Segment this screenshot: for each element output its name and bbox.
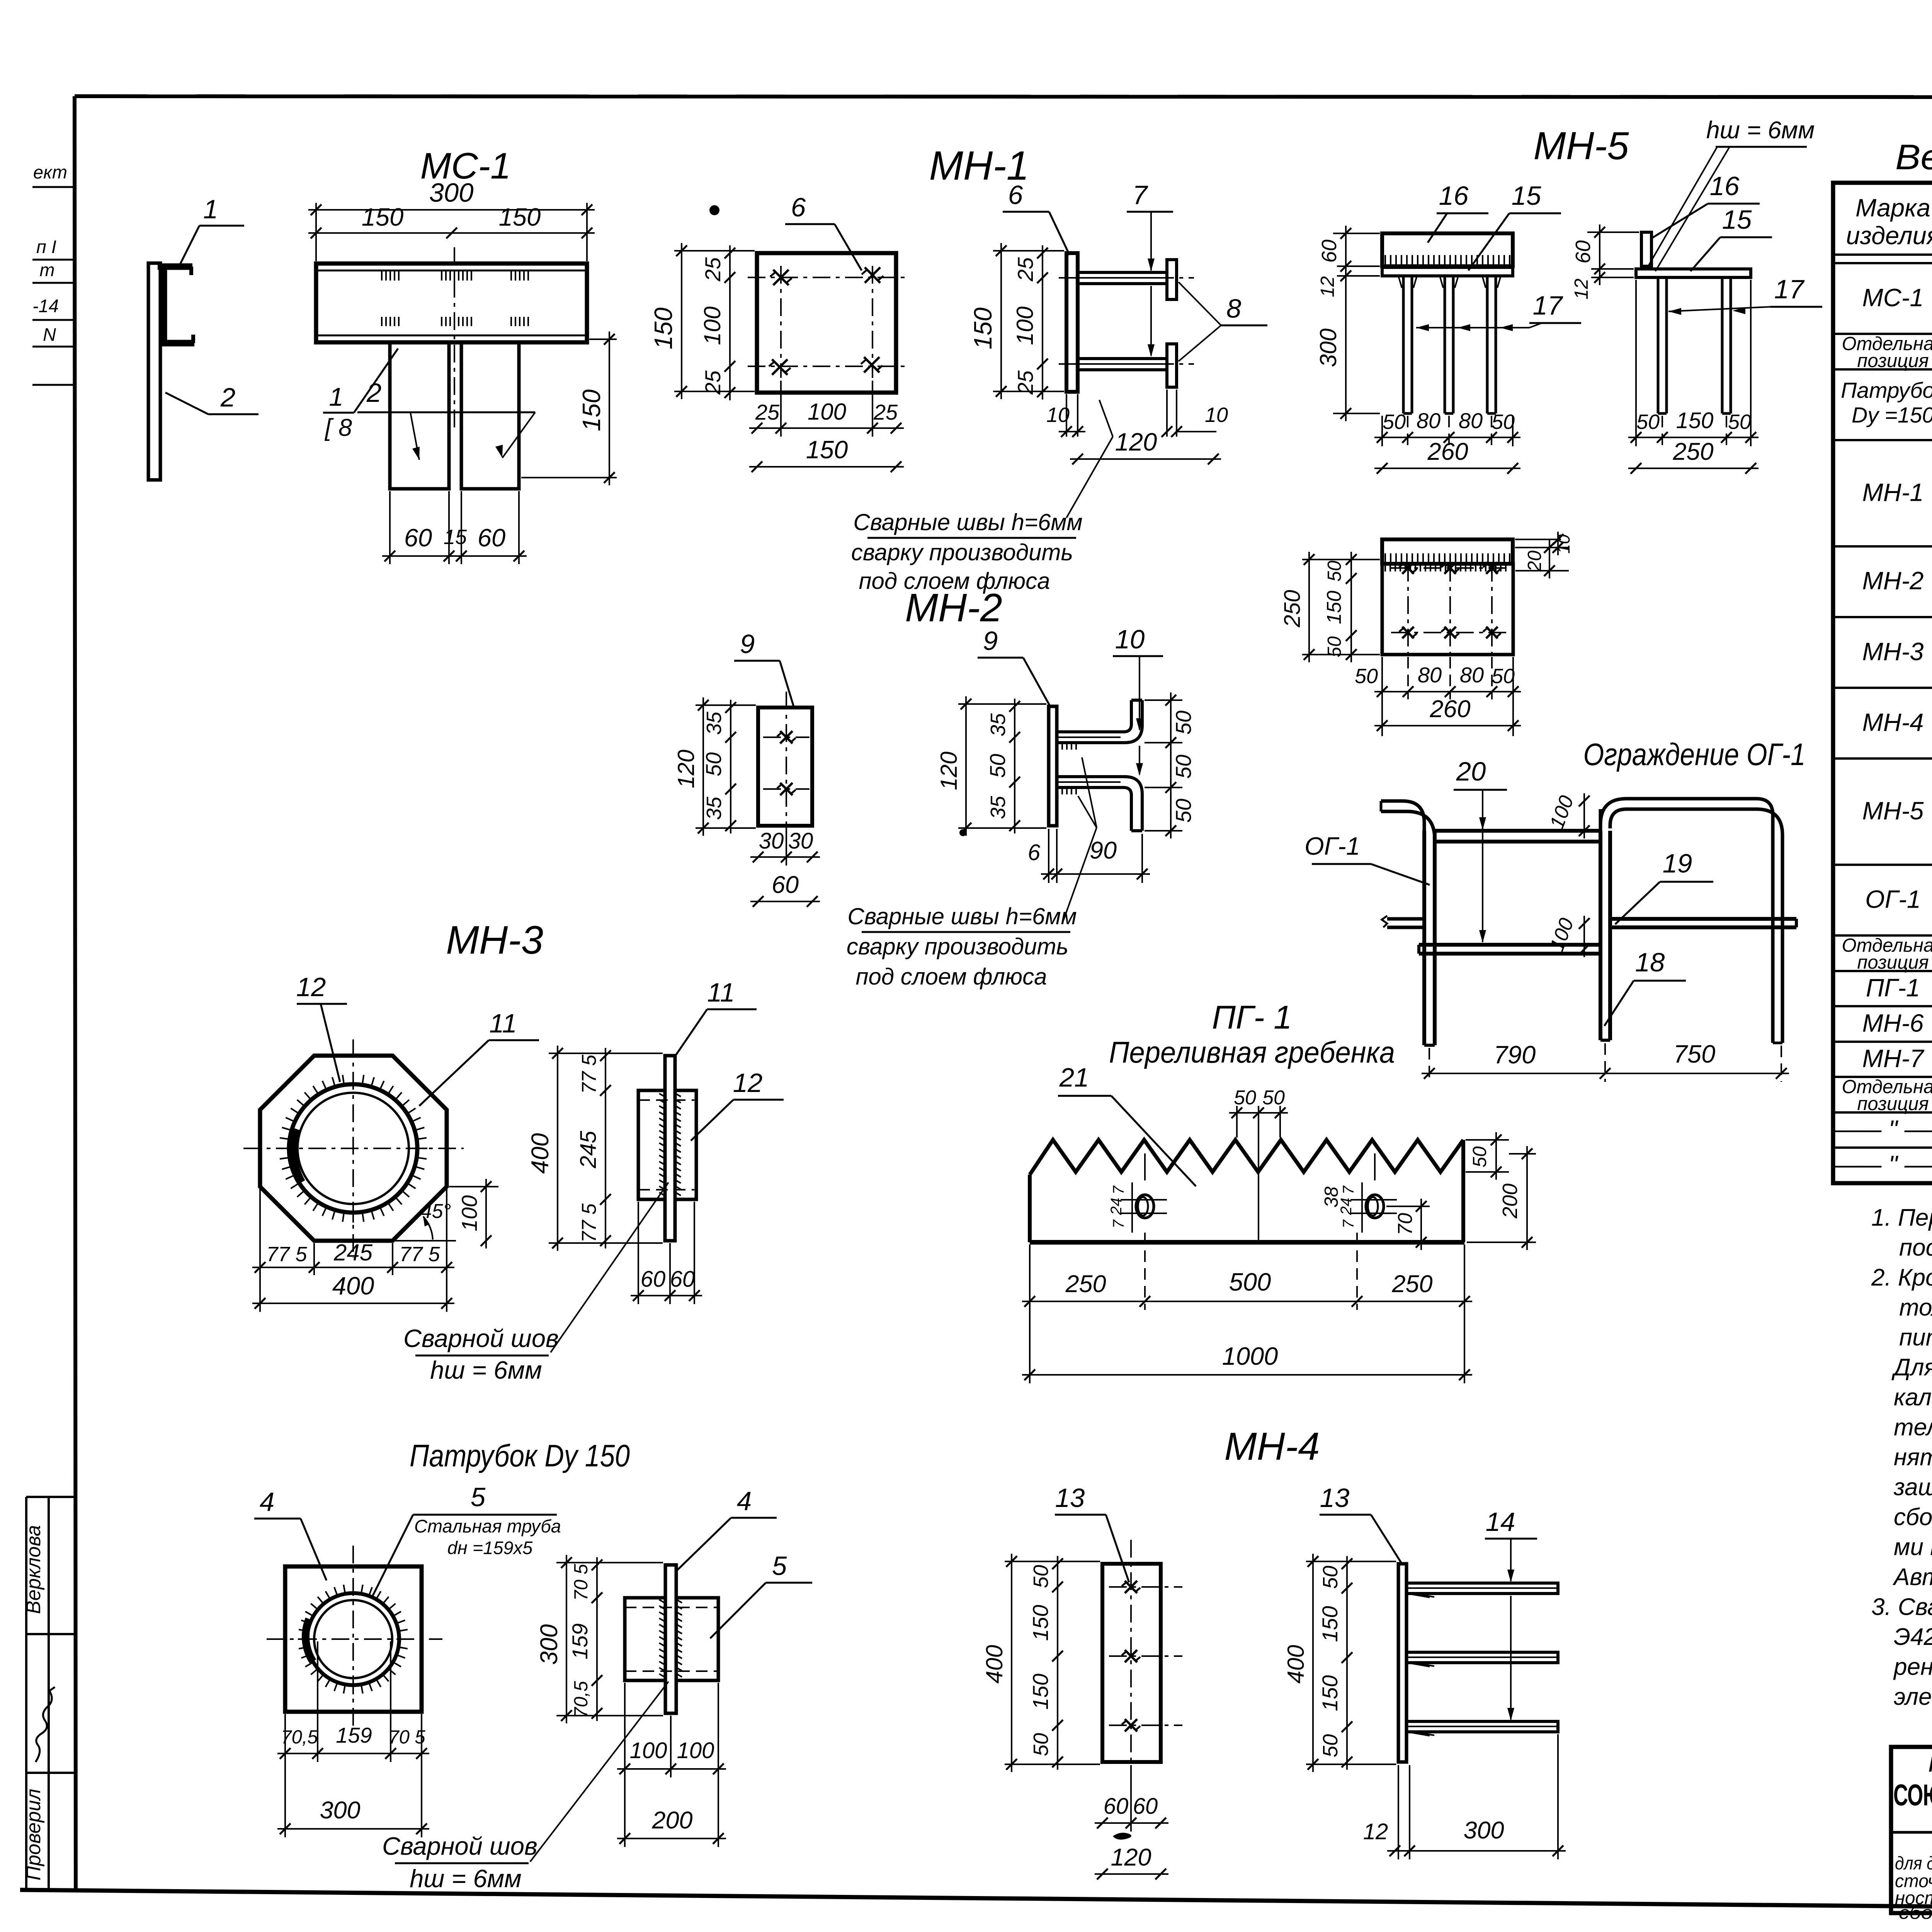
MH-2 side bottom dims 6 90 [1048, 829, 1049, 883]
svg-text:кальциевым покрытием типа: кальциевым покрытием типа Э-42А или Э50А… [1894, 1384, 1932, 1411]
svg-text:17: 17 [1533, 291, 1563, 320]
svg-text:70: 70 [1394, 1213, 1417, 1235]
MH-4 side dim 400 [1306, 1561, 1396, 1562]
svg-text:ПГ- 1: ПГ- 1 [1212, 999, 1292, 1036]
svg-text:50: 50 [1492, 665, 1515, 688]
MC-1 centerline [454, 247, 455, 433]
svg-text:260: 260 [1429, 696, 1470, 723]
svg-text:13: 13 [1320, 1483, 1350, 1513]
PG-1 dim 200 right [1467, 1242, 1536, 1243]
MH-5 side view studs pos17 [1657, 277, 1660, 413]
svg-text:260: 260 [1427, 438, 1468, 465]
svg-text:Dy =150: Dy =150 [1852, 403, 1932, 427]
svg-text:17: 17 [1774, 274, 1805, 304]
MH-3 side weld hatch [656, 1090, 658, 1092]
svg-text:50: 50 [1324, 636, 1345, 658]
svg-text:Проверил: Проверил [22, 1789, 45, 1881]
MH-5 front dims 60 12 left [1333, 233, 1380, 234]
svg-text:70 5: 70 5 [571, 1564, 592, 1601]
MH-4 front dim 120 [1095, 1873, 1168, 1875]
svg-text:11: 11 [489, 1009, 517, 1038]
svg-text:19: 19 [1663, 849, 1692, 878]
svg-text:150: 150 [1318, 1675, 1342, 1711]
svg-text:Сварной шов: Сварной шов [382, 1832, 537, 1860]
MH-2 side dim 120 [958, 703, 1046, 705]
MH-5 weld label leaders [1648, 148, 1717, 266]
svg-text:245: 245 [333, 1240, 373, 1265]
MH-4 front bottom dims 60 60 [1130, 1765, 1132, 1832]
OG-1 right section U-frame pos18 [1600, 799, 1773, 1043]
svg-text:60: 60 [772, 871, 799, 898]
MH-1 plan dims 25 100 25 left [729, 245, 731, 400]
MH-3 side view tube pos12 [638, 1090, 665, 1199]
svg-text:Верклова: Верклова [22, 1525, 45, 1614]
svg-text:150: 150 [499, 203, 541, 231]
svg-text:150: 150 [1676, 408, 1714, 433]
svg-text:1: 1 [329, 383, 343, 412]
svg-text:80: 80 [1417, 408, 1440, 433]
MH-3 radial weld hatch [418, 1148, 427, 1149]
svg-text:Э42 ГОСТ 9467-60. Высота в: Э42 ГОСТ 9467-60. Высота всех сварных шв… [1894, 1624, 1932, 1650]
svg-text:50: 50 [1319, 1566, 1342, 1589]
OG-1 left post pos18 [1422, 831, 1426, 1045]
svg-text:Госстрой СССР: Госстрой СССР [1928, 1748, 1932, 1777]
svg-text:150: 150 [1318, 1606, 1342, 1642]
svg-text:150: 150 [362, 203, 403, 231]
svg-text:Стальная труба: Стальная труба [414, 1516, 561, 1536]
svg-text:20: 20 [1456, 757, 1486, 786]
patrubok front bottom dims 70,5 159 70,5 [284, 1714, 286, 1762]
svg-text:50: 50 [1171, 755, 1196, 779]
patrubok side dims 70,5 159 70,5 [596, 1557, 598, 1721]
svg-text:250: 250 [1280, 590, 1305, 628]
svg-text:12: 12 [296, 972, 326, 1002]
MH-3 dim 100 right [449, 1186, 498, 1187]
MH-4 side dims 50 150 150 50 [1346, 1556, 1348, 1770]
svg-text:[ 8: [ 8 [324, 414, 352, 441]
svg-text:элементов.: элементов. [1894, 1684, 1932, 1710]
svg-text:15: 15 [1512, 181, 1541, 211]
patrubok tube circle pos5 [307, 1593, 399, 1685]
svg-text:ект: ект [33, 162, 67, 182]
svg-text:100: 100 [808, 399, 846, 425]
MC-1 front view weld hatches [381, 271, 383, 281]
svg-text:Сварные швы h=6мм: Сварные швы h=6мм [853, 509, 1082, 535]
svg-text:Ведомость элементов на одно: Ведомость элементов на одно изделие [1895, 138, 1932, 177]
svg-text:12: 12 [1571, 279, 1592, 300]
MH-2 front bottom dims 30 30 [786, 829, 787, 866]
MH-3 bottom dims 77,5 245 77,5 [259, 1189, 261, 1275]
MH-5 plan right dims 10 20 [1515, 539, 1561, 540]
svg-text:750: 750 [1673, 1040, 1715, 1068]
svg-text:п I: п I [36, 236, 56, 257]
MH-2 side view plate pos9 [1049, 706, 1057, 826]
svg-text:2. Кронштейн МС-1 и все закл: 2. Кронштейн МС-1 и все закладные детали… [1871, 1264, 1932, 1291]
MH-3 side view plate pos11 [665, 1056, 675, 1241]
svg-text:6: 6 [791, 192, 806, 222]
svg-text:10: 10 [1205, 403, 1228, 427]
svg-text:изделия: изделия [1846, 221, 1932, 250]
svg-text:25: 25 [1013, 257, 1037, 282]
PG-1 dim 70 right of hole [1386, 1206, 1430, 1207]
ink blob [1113, 1833, 1131, 1840]
left margin stamp lines [32, 186, 75, 188]
svg-text:150: 150 [1028, 1605, 1053, 1641]
svg-text:35: 35 [702, 796, 726, 820]
svg-text:12: 12 [1317, 276, 1338, 298]
MH-5 side dim 250 [1628, 468, 1759, 469]
svg-text:24: 24 [1108, 1198, 1125, 1216]
svg-text:9: 9 [740, 629, 755, 659]
MH-5 plan view plate pos15 [1382, 564, 1513, 655]
MH-3 side bottom dims 60 60 [638, 1202, 639, 1304]
svg-text:4: 4 [260, 1487, 274, 1517]
svg-text:16: 16 [1439, 181, 1469, 211]
svg-text:77 5: 77 5 [266, 1243, 307, 1266]
MC-1 front view channel bar [316, 264, 587, 342]
MH-5 side view bar end pos16 [1641, 232, 1651, 266]
svg-text:dн =159x5: dн =159x5 [447, 1537, 533, 1558]
svg-text:Авторское свидетельство №: Авторское свидетельство № 234095). [1892, 1564, 1932, 1590]
MH-5 side bottom dims 50 150 50 [1662, 416, 1663, 446]
svg-text:МН-7: МН-7 [1862, 1044, 1925, 1072]
MC-1 dim 60 15 60 extensions [389, 491, 391, 564]
svg-text:25: 25 [755, 400, 780, 424]
OG-1 dim 100 lower [1583, 916, 1585, 957]
svg-text:60: 60 [1104, 1794, 1129, 1819]
svg-text:МН-2: МН-2 [1862, 566, 1924, 595]
svg-text:50: 50 [1355, 665, 1378, 688]
MC-1 side view plate pos2 [148, 263, 160, 480]
bottom-left stamp column [25, 1497, 27, 1888]
MH-5 plan centerlines and welds [1407, 564, 1409, 655]
svg-text:60: 60 [641, 1267, 666, 1292]
svg-text:нять в соответствии с „ Реко: нять в соответствии с „ Рекомендациями п… [1894, 1444, 1932, 1471]
svg-text:позиция: позиция [1857, 350, 1929, 371]
svg-text:100: 100 [1546, 793, 1578, 832]
svg-text:ми на основе алюминия”. (Вт: ми на основе алюминия”. (Второе издание … [1894, 1534, 1932, 1561]
MH-3 dim 400 [259, 1275, 261, 1312]
MH-3 centerlines [243, 1148, 464, 1149]
MH-4 front dims 50 150 150 50 [1057, 1556, 1058, 1770]
svg-text:МН-2: МН-2 [905, 585, 1002, 630]
MH-4 front centerline [1130, 1540, 1132, 1787]
svg-text:ОГ-1: ОГ-1 [1304, 832, 1360, 860]
svg-text:МС-1: МС-1 [1862, 284, 1924, 312]
patrubok centerlines [267, 1638, 442, 1640]
svg-text:11: 11 [707, 978, 735, 1007]
svg-text:1: 1 [203, 194, 218, 224]
MH-1 side dims 25 100 25 [1042, 245, 1043, 400]
svg-text:Для сварки закладных детале: Для сварки закладных деталей применять э… [1891, 1354, 1932, 1381]
OG-1 left top rail pos20 [1435, 829, 1600, 833]
OG-1 right mid rail pos19 [1610, 917, 1796, 921]
svg-text:15: 15 [444, 526, 467, 549]
MH-1 plan bottom dims 25 100 25 [780, 381, 782, 437]
MH-5 side dims 60 12 left [1587, 231, 1639, 233]
svg-text:50: 50 [1636, 410, 1660, 434]
MH-3 side dim 400 [549, 1053, 663, 1054]
svg-text:МН-3: МН-3 [1862, 637, 1924, 665]
MH-1 side bottom dim 10 right [1166, 389, 1168, 437]
svg-text:50: 50 [1319, 1734, 1342, 1757]
svg-text:100: 100 [677, 1738, 714, 1763]
MH-1 side view lower stud pos7 [1078, 359, 1167, 370]
MH-1 side dim 120 [1070, 458, 1221, 460]
svg-text:50: 50 [1492, 410, 1515, 434]
svg-text:Патрубок Dy 150: Патрубок Dy 150 [410, 1439, 630, 1473]
svg-text:N: N [43, 324, 56, 345]
svg-text:10: 10 [1046, 403, 1070, 427]
MH-3 tube circles pos12 [289, 1084, 417, 1213]
svg-text:120: 120 [1115, 428, 1157, 456]
svg-text:70,5: 70,5 [571, 1681, 592, 1718]
MH-1 plate plan view [757, 253, 896, 393]
svg-text:6: 6 [1008, 180, 1023, 210]
svg-text:т: т [39, 260, 54, 280]
MH-4 front weld marks [1109, 1586, 1182, 1588]
svg-text:80: 80 [1418, 663, 1442, 687]
MH-5 plan dim 260 [1374, 725, 1521, 726]
svg-text:77 5: 77 5 [399, 1243, 440, 1266]
MH-1 side view plate pos6 [1066, 253, 1078, 392]
svg-text:питкой органическим составо: питкой органическим составом эл-00-01 (Т… [1899, 1324, 1932, 1351]
svg-text:50: 50 [1324, 561, 1345, 582]
svg-text:7: 7 [1340, 1219, 1357, 1228]
MH-5 plan dim 250 left [1302, 559, 1380, 560]
svg-text:сварку производить: сварку производить [847, 934, 1068, 959]
svg-text:—— " ——: —— " —— [1831, 1115, 1932, 1143]
svg-text:13: 13 [1055, 1483, 1085, 1513]
svg-text:50: 50 [1469, 1146, 1490, 1168]
PG-1 bottom dims 250 500 250 [1029, 1245, 1031, 1383]
patrubok front dim 300 [284, 1762, 286, 1837]
MH-4 side bottom dims 12 300 [1398, 1765, 1399, 1859]
patrubok weld seam leader [530, 1682, 668, 1862]
svg-text:Сварной шов: Сварной шов [403, 1324, 559, 1352]
svg-text:790: 790 [1494, 1041, 1536, 1069]
svg-text:77 5: 77 5 [578, 1054, 600, 1094]
MC-1 dim 150 legs [589, 338, 617, 340]
MH-1 side view upper stud head pos8 [1167, 260, 1177, 299]
patrubok side view tube pos5 [625, 1598, 665, 1680]
MH-5 front view plate pos15 [1382, 267, 1513, 276]
svg-text:Ограждение ОГ-1: Ограждение ОГ-1 [1583, 737, 1806, 772]
svg-text:2: 2 [366, 378, 381, 408]
svg-text:сборного железобетона.: сборного железобетона. [1899, 1902, 1932, 1923]
svg-text:200: 200 [651, 1807, 692, 1834]
svg-text:СОЮЗВОДОКАНАЛПРОЕКТ: СОЮЗВОДОКАНАЛПРОЕКТ [1893, 1778, 1932, 1812]
svg-text:МН-5: МН-5 [1534, 124, 1629, 168]
MC-1 side view channel pos1 [158, 267, 194, 343]
svg-text:300: 300 [320, 1797, 360, 1824]
svg-text:—— " ——: —— " —— [1831, 1150, 1932, 1179]
svg-text:защите стальных закладных д: защите стальных закладных деталей и свар… [1893, 1474, 1932, 1501]
svg-text:16: 16 [1710, 171, 1740, 201]
svg-text:400: 400 [332, 1272, 374, 1300]
svg-text:ренных, выбирается по наимен: ренных, выбирается по наименьшей толщине… [1893, 1654, 1932, 1680]
svg-text:21: 21 [1059, 1063, 1089, 1092]
svg-text:7: 7 [1110, 1219, 1127, 1228]
svg-text:250: 250 [1391, 1270, 1432, 1298]
ink dot [959, 829, 966, 836]
MH-5 plan dims 50 150 50 [1350, 552, 1352, 662]
svg-text:20: 20 [1524, 551, 1545, 572]
svg-text:30: 30 [759, 828, 784, 854]
MH-2 weld note leader [1063, 828, 1097, 920]
svg-text:3. Сварку стальных конструкц: 3. Сварку стальных конструкций выполнять… [1871, 1594, 1932, 1621]
MH-2 side lower rod pos10 [1057, 787, 1131, 831]
svg-text:8: 8 [1226, 294, 1241, 323]
svg-text:159: 159 [336, 1723, 372, 1747]
PG-1 dim 50 tooth right [1466, 1139, 1509, 1141]
MH-2 side weld ticks [1057, 743, 1058, 750]
svg-text:400: 400 [981, 1645, 1007, 1684]
svg-text:100: 100 [1546, 915, 1578, 954]
svg-text:150: 150 [1028, 1673, 1053, 1709]
svg-text:150: 150 [649, 308, 677, 349]
svg-text:159: 159 [568, 1623, 592, 1659]
PG-1 dims 50 50 top [1236, 1106, 1238, 1138]
MH-2 front dim 60 [750, 901, 820, 902]
MH-4 side studs pos14 [1406, 1583, 1558, 1594]
svg-text:позиция: позиция [1857, 952, 1929, 973]
svg-text:150: 150 [1323, 591, 1345, 624]
svg-text:МН-4: МН-4 [1225, 1425, 1320, 1468]
svg-text:50: 50 [1728, 410, 1751, 434]
patrubok plate front view pos4 [285, 1566, 422, 1712]
svg-text:50: 50 [1029, 1565, 1053, 1588]
sheet border frame [75, 96, 1932, 97]
svg-text:300: 300 [1315, 328, 1341, 367]
MH-1 side view lower stud head pos8 [1167, 344, 1177, 387]
MH-2 side upper rod pos10 [1057, 700, 1131, 732]
svg-text:60: 60 [404, 524, 432, 552]
OG-1 bottom dims 790 750 [1429, 1048, 1430, 1082]
svg-text:70 5: 70 5 [388, 1727, 425, 1748]
svg-text:10: 10 [1115, 624, 1145, 654]
MH-1 side centerlines [1059, 277, 1194, 279]
svg-text:150: 150 [577, 389, 605, 431]
patrubok side dim 300 [556, 1562, 663, 1563]
svg-text:35: 35 [702, 711, 726, 735]
MH-3 octagon plate pos11 [260, 1056, 447, 1241]
svg-text:50: 50 [1383, 410, 1406, 434]
OG-1 middle post pos18 [1599, 831, 1602, 1040]
svg-text:Переливная гребенка: Переливная гребенка [1109, 1035, 1395, 1069]
svg-text:под слоем флюса: под слоем флюса [855, 964, 1047, 990]
MH-1 plan dim 150 left [674, 250, 755, 252]
svg-text:80: 80 [1460, 663, 1484, 687]
MH-5 front view studs pos17 [1402, 276, 1405, 413]
MH-5 side view plate pos15 [1636, 269, 1751, 277]
PG-1 left hole [1136, 1195, 1154, 1218]
svg-text:100: 100 [699, 306, 725, 345]
svg-text:400: 400 [1283, 1645, 1309, 1684]
PG-1 dim 1000 [1022, 1374, 1472, 1376]
svg-text:100: 100 [1012, 306, 1038, 345]
svg-text:60: 60 [478, 524, 505, 552]
svg-text:35: 35 [986, 796, 1010, 819]
svg-text:10: 10 [1554, 534, 1573, 554]
svg-text:90: 90 [1090, 837, 1117, 864]
svg-text:15: 15 [1722, 205, 1752, 235]
MH-4 front dim 400 [1005, 1561, 1100, 1562]
MH-2 front dim 120 [696, 704, 756, 706]
svg-text:Марка: Марка [1855, 194, 1930, 222]
svg-text:9: 9 [983, 626, 998, 656]
svg-text:500: 500 [1229, 1268, 1271, 1296]
MH-5 plan view bar pos16 [1382, 539, 1513, 564]
svg-text:150: 150 [969, 308, 997, 349]
MH-2 front dims 35 50 35 [730, 700, 731, 833]
svg-text:120: 120 [673, 750, 699, 788]
MC-1 front view right leg [461, 342, 519, 489]
OG-1 dim 100 upper [1598, 801, 1612, 801]
svg-text:МН-1: МН-1 [1862, 478, 1924, 506]
svg-text:300: 300 [429, 178, 473, 207]
svg-text:12: 12 [733, 1068, 763, 1098]
svg-text:30: 30 [788, 828, 813, 854]
svg-text:ОГ-1: ОГ-1 [1865, 885, 1921, 913]
svg-text:50: 50 [701, 752, 726, 776]
PG-1 comb plate pos21 [1030, 1140, 1463, 1175]
MH-4 side view plate pos13 [1398, 1564, 1406, 1762]
svg-text:25: 25 [701, 370, 725, 395]
MH-1 plan weld marks [773, 270, 789, 285]
svg-text:60: 60 [670, 1267, 695, 1292]
svg-text:-14: -14 [32, 296, 59, 316]
svg-text:hш = 6мм: hш = 6мм [410, 1864, 521, 1893]
svg-text:50: 50 [1171, 711, 1196, 735]
svg-text:5: 5 [471, 1482, 486, 1512]
svg-text:5: 5 [772, 1551, 787, 1581]
svg-text:245: 245 [576, 1131, 601, 1169]
svg-text:60: 60 [1571, 240, 1595, 264]
svg-text:Патрубок: Патрубок [1841, 378, 1932, 403]
MH-5 front dim 260 [1374, 468, 1520, 469]
MH-3 side dims 77,5 245 77,5 [605, 1048, 606, 1248]
svg-text:50: 50 [1234, 1087, 1256, 1109]
svg-text:100: 100 [457, 1195, 481, 1231]
MH-5 plan bottom dims 50 80 80 50 [1407, 657, 1409, 699]
svg-text:25: 25 [701, 257, 725, 282]
MH-3 weld seam leader [551, 1182, 668, 1352]
ink dot [709, 205, 719, 215]
svg-text:ПГ-1: ПГ-1 [1866, 973, 1920, 1002]
svg-text:6: 6 [1028, 840, 1041, 865]
svg-text:120: 120 [1111, 1844, 1151, 1871]
svg-text:35: 35 [986, 713, 1010, 736]
svg-text:25: 25 [1013, 370, 1037, 395]
MH-2 front centerline [786, 692, 787, 844]
PG-1 right hole [1366, 1195, 1384, 1218]
svg-text:МН-5: МН-5 [1862, 796, 1924, 825]
svg-text:70,5: 70,5 [281, 1727, 318, 1748]
svg-text:100: 100 [630, 1738, 667, 1763]
svg-text:50: 50 [1029, 1733, 1053, 1756]
MH-3 angle 45 [393, 1240, 456, 1242]
svg-text:12: 12 [1363, 1819, 1388, 1844]
MH-5 front view top bar pos16 [1382, 233, 1513, 266]
svg-text:400: 400 [527, 1133, 554, 1173]
svg-text:7: 7 [1340, 1185, 1357, 1194]
patrubok side view plate pos4 [665, 1565, 676, 1713]
MH-1 weld note leader [1066, 437, 1113, 518]
MH-2 front weld marks [780, 731, 793, 743]
svg-text:МН-4: МН-4 [1862, 708, 1924, 736]
svg-text:сварку производить: сварку производить [851, 539, 1073, 565]
